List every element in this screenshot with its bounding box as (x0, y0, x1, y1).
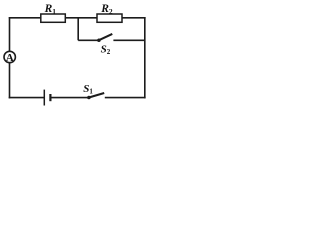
wire left vertical upper (corner to ammeter) (9, 17, 11, 51)
svg-text:A: A (6, 52, 14, 64)
battery (43, 90, 45, 106)
wire branch left segment to S2 (78, 39, 99, 41)
resistor R1 (41, 14, 66, 22)
wire right vertical (144, 17, 146, 98)
wire branch vertical drop at node (77, 17, 79, 40)
resistor R2 (97, 14, 122, 22)
wire R1 to R2 (65, 17, 97, 19)
svg-text:S1: S1 (83, 83, 93, 96)
wire branch right segment S2 to right wire (113, 39, 144, 41)
svg-text:R1: R1 (44, 3, 57, 16)
wire battery to switch S1 (50, 97, 88, 99)
svg-text:S2: S2 (101, 43, 111, 56)
switch S2 (97, 38, 101, 42)
switch S1 (87, 96, 91, 100)
wire left vertical lower (ammeter to corner) (9, 63, 11, 99)
svg-text:R2: R2 (100, 3, 113, 16)
wire top-left to R1 (9, 17, 41, 19)
wire S1 to bottom-right corner (105, 97, 146, 99)
ammeter A (4, 51, 15, 62)
wire bottom-left corner to battery (9, 97, 45, 99)
wire R2 to top-right corner (122, 17, 146, 19)
